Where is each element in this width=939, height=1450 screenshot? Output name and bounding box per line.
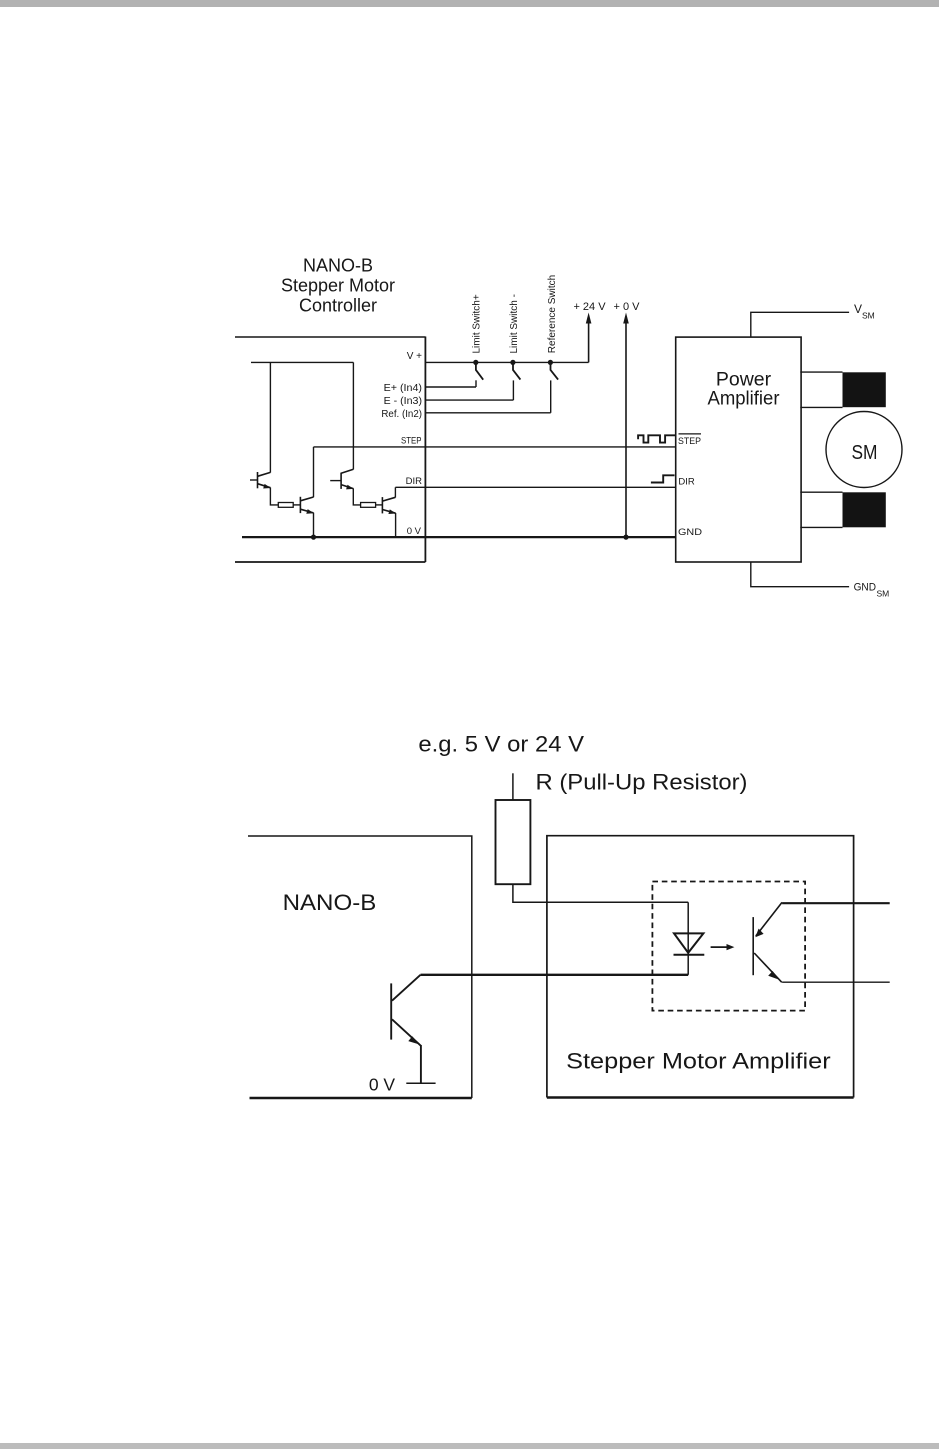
svg-text:V +: V + xyxy=(407,351,422,362)
switch S2 Limit Switch- xyxy=(510,360,520,400)
svg-text:0 V: 0 V xyxy=(369,1074,396,1094)
svg-text:+ 0 V: + 0 V xyxy=(614,301,641,313)
svg-text:R (Pull-Up Resistor): R (Pull-Up Resistor) xyxy=(536,770,748,795)
transistor Q1 (NANO-B output) xyxy=(391,975,421,1046)
label V_SM xyxy=(854,302,875,321)
svg-text:SM: SM xyxy=(852,442,878,464)
motor winding W1 (top) xyxy=(800,372,886,407)
svg-text:STEP: STEP xyxy=(401,436,422,447)
svg-text:GND: GND xyxy=(854,582,876,594)
wire: Ref. (In2) pin xyxy=(425,412,550,414)
wire: internal top rail xyxy=(251,361,353,363)
top page header gray bar xyxy=(0,0,939,7)
wire: supply to pull-up resistor xyxy=(512,773,514,800)
svg-text:SM: SM xyxy=(862,311,875,321)
switch S3 Reference Switch xyxy=(548,360,558,413)
wire: T3 collector drop xyxy=(352,362,354,469)
arrowhead T3 emitter xyxy=(346,485,354,490)
wire: V+ pin to +24V rail xyxy=(425,361,588,363)
arrowhead T2 emitter xyxy=(306,509,314,514)
NANO-B controller box U1 (open left side) xyxy=(235,337,425,563)
label GND_SM xyxy=(854,582,890,599)
svg-text:Amplifier: Amplifier xyxy=(708,388,780,410)
label Power Amplifier xyxy=(708,368,780,409)
+24V supply arrow xyxy=(573,301,606,362)
svg-text:Controller: Controller xyxy=(299,296,377,316)
+0V supply arrow / rail xyxy=(614,301,641,537)
svg-text:E - (In3): E - (In3) xyxy=(384,396,422,407)
label: NANO-B Stepper Motor Controller title xyxy=(281,256,395,316)
arrowhead Q2 collector (pointing into base) xyxy=(755,929,763,938)
wire: 0V / GND rail xyxy=(242,536,676,538)
svg-text:NANO-B: NANO-B xyxy=(283,890,377,915)
DIR waveform glyph xyxy=(651,475,675,482)
pin label STEP (Power Amplifier, overlined) xyxy=(678,434,701,447)
wire: T4 emitter to 0V rail xyxy=(395,513,397,537)
wire: T2 collector to STEP xyxy=(313,447,315,497)
svg-text:Stepper Motor: Stepper Motor xyxy=(281,276,395,296)
wire: STEP signal NANO-B to Power Amplifier xyxy=(314,446,676,448)
wire: E- (In3) pin xyxy=(425,399,513,401)
svg-text:0 V: 0 V xyxy=(407,526,422,537)
wire: T2 emitter to 0V rail xyxy=(313,513,315,537)
transistor T4 xyxy=(382,497,395,513)
svg-text:STEP: STEP xyxy=(678,436,701,447)
svg-text:Stepper Motor Amplifier: Stepper Motor Amplifier xyxy=(566,1049,831,1074)
Power Amplifier box U2 xyxy=(676,337,801,562)
resistor R2 xyxy=(361,503,376,508)
svg-text:V: V xyxy=(854,302,862,316)
svg-text:E+ (In4): E+ (In4) xyxy=(384,383,422,394)
junction dot T2 emitter / 0V xyxy=(311,535,316,540)
svg-text:Ref. (In2): Ref. (In2) xyxy=(381,409,422,420)
svg-text:Limit Switch -: Limit Switch - xyxy=(509,294,520,353)
ground bar 0V xyxy=(406,1082,435,1084)
svg-text:NANO-B: NANO-B xyxy=(303,256,373,276)
arrowhead T4 emitter xyxy=(388,509,396,514)
arrowhead Q2 emitter xyxy=(768,971,779,980)
svg-text:e.g. 5 V or 24 V: e.g. 5 V or 24 V xyxy=(418,732,584,757)
svg-text:DIR: DIR xyxy=(406,476,423,487)
svg-text:Limit Switch+: Limit Switch+ xyxy=(472,294,483,353)
bottom page footer gray bar xyxy=(0,1443,939,1449)
svg-text:SM: SM xyxy=(877,589,890,599)
wire: T3 emitter to resistor xyxy=(353,488,360,505)
stepper motor SM circle xyxy=(826,412,902,488)
wire: R1 to T2 base xyxy=(293,504,300,506)
STEP waveform glyph xyxy=(638,435,676,442)
optocoupler LED D1 xyxy=(674,902,705,975)
arrowhead Q1 emitter xyxy=(408,1036,419,1044)
transistor T2 xyxy=(300,497,313,513)
wire: pull-up resistor to optocoupler anode xyxy=(513,884,688,902)
svg-text:GND: GND xyxy=(678,527,702,538)
wire: T1 emitter to resistor xyxy=(270,488,278,505)
svg-text:Reference Switch: Reference Switch xyxy=(547,275,558,353)
Stepper Motor Amplifier box xyxy=(547,836,854,1098)
transistor T3 xyxy=(330,469,353,489)
wire: DIR signal NANO-B to Power Amplifier xyxy=(395,486,675,488)
motor winding W2 (bottom) xyxy=(800,492,886,527)
arrowhead T1 emitter xyxy=(263,484,271,489)
resistor R pull-up xyxy=(496,800,531,884)
svg-text:DIR: DIR xyxy=(678,477,695,488)
transistor T1 xyxy=(250,472,270,488)
wire: V_SM supply xyxy=(751,312,849,337)
wire: phototransistor emitter output xyxy=(782,981,890,983)
wire: Q1 emitter to ground xyxy=(420,1045,422,1083)
phototransistor Q2 xyxy=(753,902,782,982)
switch S1 Limit Switch+ xyxy=(473,360,483,387)
resistor R1 xyxy=(278,503,293,508)
svg-text:+ 24 V: + 24 V xyxy=(573,301,606,313)
wire: GND_SM xyxy=(751,562,849,587)
light arrow (LED to phototransistor) xyxy=(711,944,735,950)
junction dot +0V rail / GND wire xyxy=(623,535,628,540)
wire: T4 collector to DIR xyxy=(394,487,396,497)
wire: T1 collector drop xyxy=(269,362,271,472)
optocoupler dashed box xyxy=(652,882,805,1011)
wire: Q1 collector to optocoupler LED cathode (thick) xyxy=(421,974,689,976)
wire: E+ (In4) pin xyxy=(425,386,476,388)
NANO-B box (bottom, open left) xyxy=(248,836,472,1098)
wire: phototransistor collector output (thick) xyxy=(782,902,890,904)
wire: R2 to T4 base xyxy=(376,504,383,506)
